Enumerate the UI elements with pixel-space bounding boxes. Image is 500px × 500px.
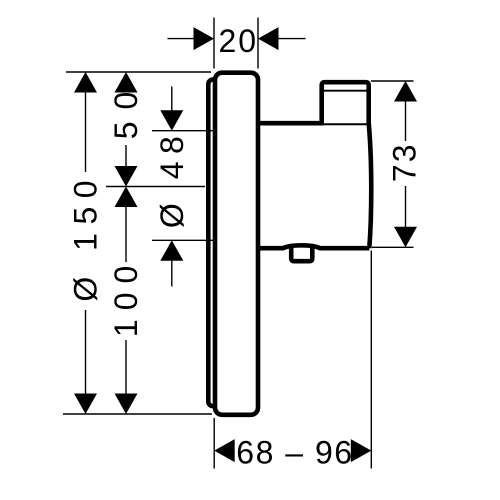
dimension D48: value label (154, 129, 190, 228)
wall plate front (escutcheon) (215, 73, 258, 415)
dimension 20: extension lines (214, 18, 258, 69)
dimension D48: extension lines (152, 131, 213, 241)
dimension 68-96: extension lines (214, 251, 371, 469)
dimension 20: right leader and arrow (258, 27, 306, 50)
svg-text:50: 50 (108, 80, 144, 140)
dimension 73: extension lines (371, 81, 414, 247)
top extension line (plate top) (66, 71, 211, 73)
dimension 20: value label (219, 23, 259, 59)
centre extension line (handle axis) (106, 186, 205, 188)
dimension 20: left leader and arrow (168, 27, 215, 50)
svg-text:68 – 96: 68 – 96 (236, 435, 353, 471)
svg-text:Ø 48: Ø 48 (154, 129, 190, 228)
svg-text:100: 100 (108, 257, 144, 337)
svg-text:20: 20 (219, 23, 259, 59)
dimension 68-96: value label (236, 435, 353, 471)
dimension D150: line and arrows (74, 72, 97, 414)
dimension 50: line and arrows (115, 72, 138, 187)
svg-text:73: 73 (386, 143, 422, 183)
svg-text:Ø 150: Ø 150 (68, 172, 104, 302)
dimension D150: value label (68, 172, 104, 302)
dimension 50: value label (108, 80, 144, 140)
dimension 100: value label (108, 257, 144, 337)
bottom tab (function block) (291, 246, 312, 261)
dimension D48: leaders and arrows (160, 87, 183, 287)
dimension 73: line and arrows (394, 81, 417, 247)
dimension 100: line and arrows (115, 187, 138, 415)
handle (stop valve knob, side view) (322, 82, 369, 125)
wall plate back edge (208, 80, 220, 407)
dimension 68-96: arrows (214, 439, 371, 462)
bottom extension line (plate bottom) (63, 413, 212, 415)
valve body outline (256, 123, 371, 248)
dimension 73: value label (386, 143, 422, 183)
